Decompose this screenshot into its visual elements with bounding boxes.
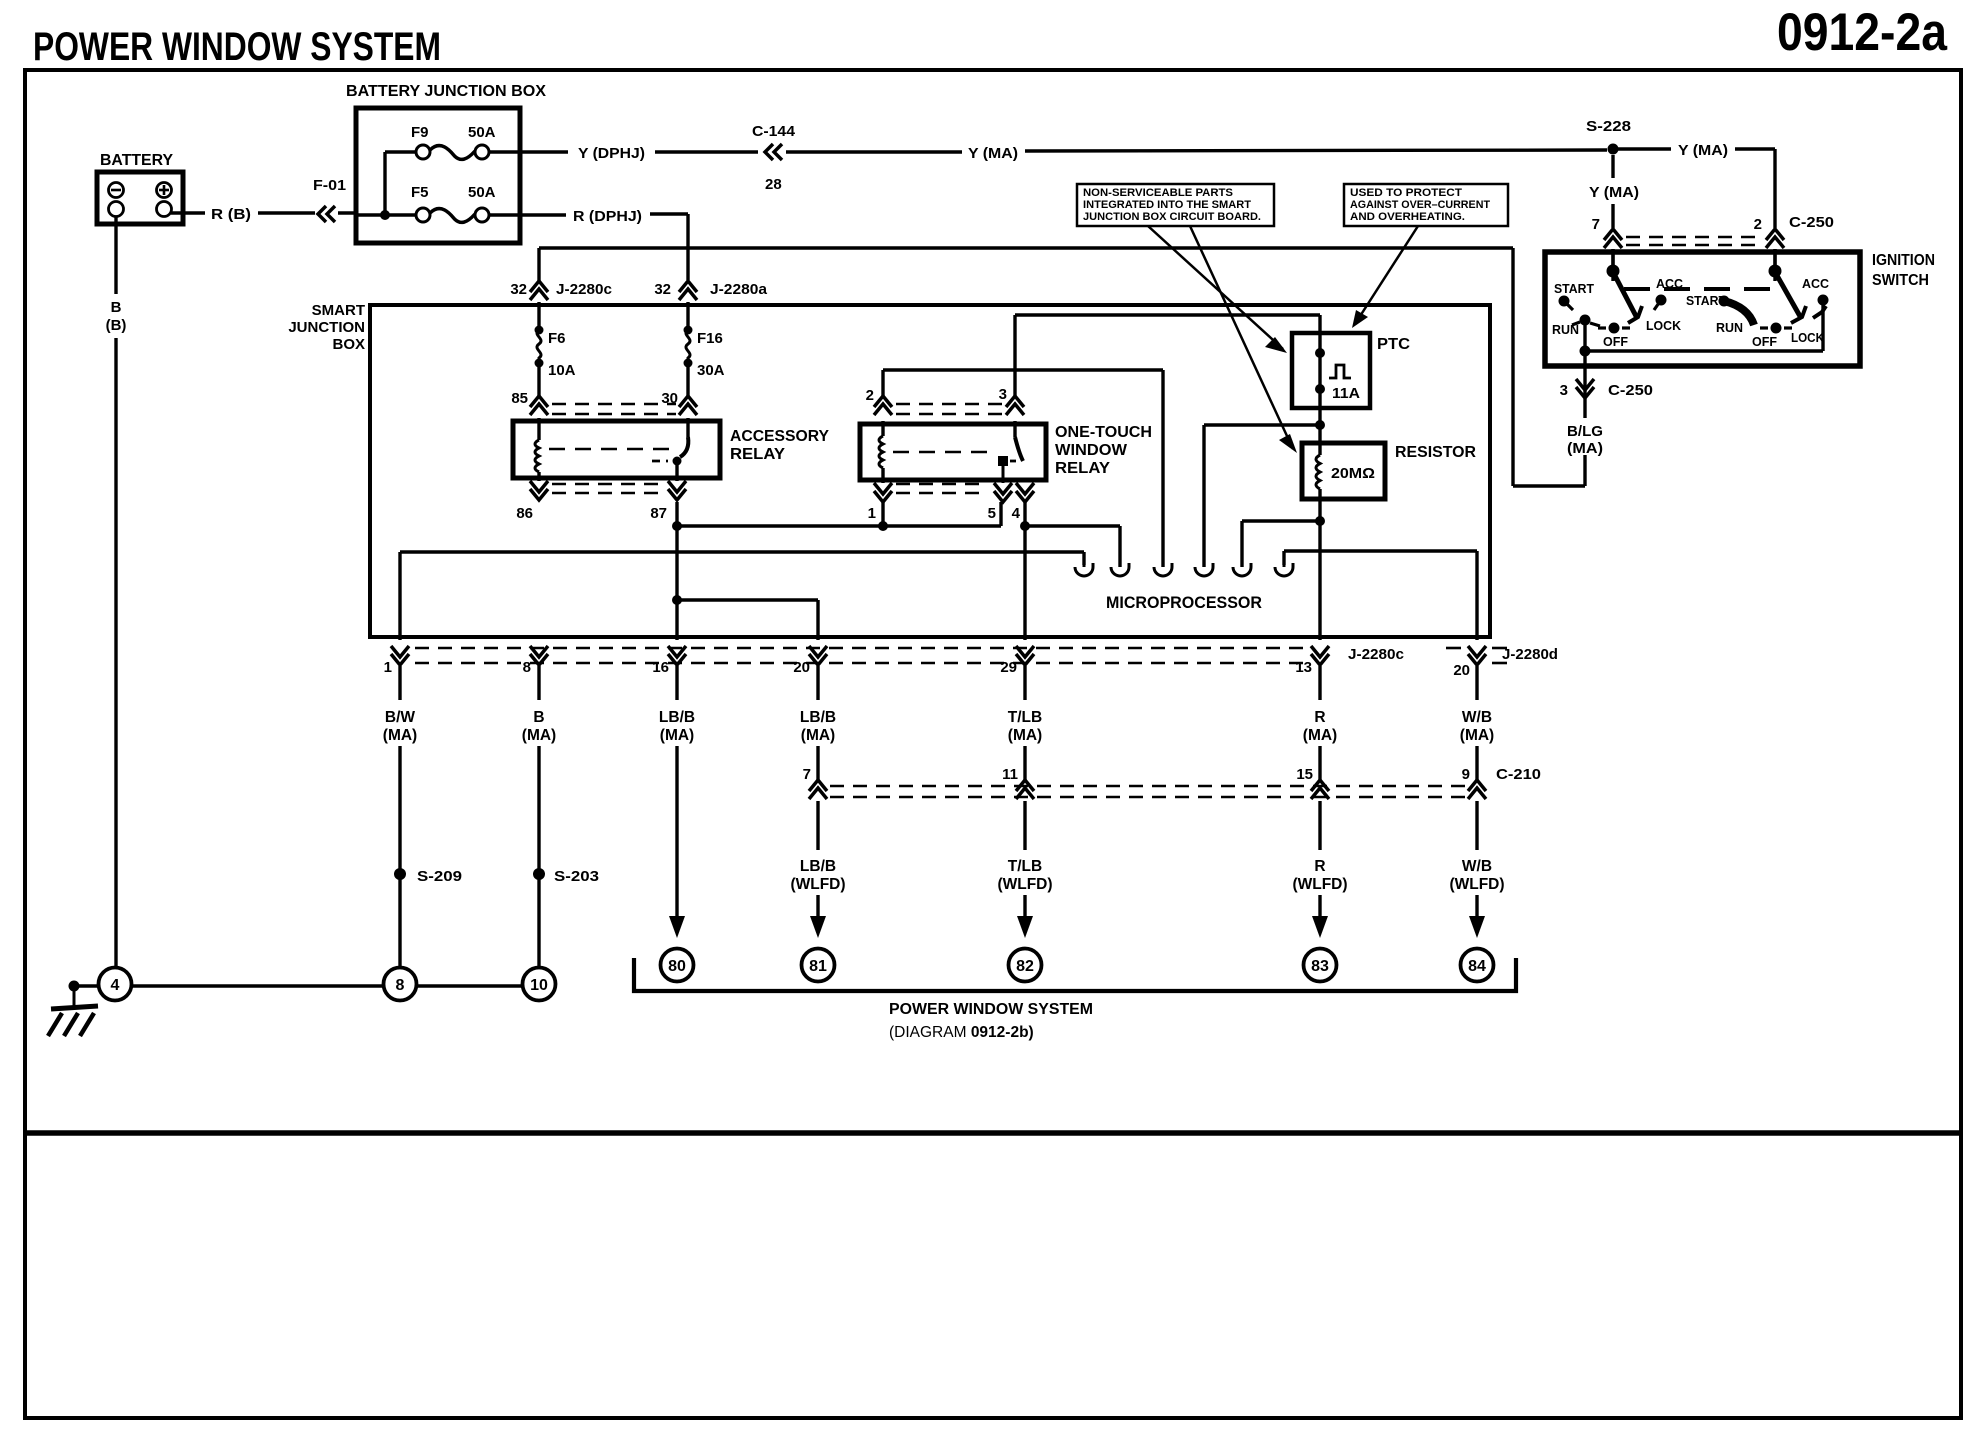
connector 84 (1469, 916, 1485, 938)
wire LB/B (WLFD) (816, 801, 819, 850)
wire B/W (MA) (398, 666, 401, 700)
wire Y (MA) to ignition switch right pin (1618, 147, 1671, 150)
svg-text:S-209: S-209 (417, 868, 462, 885)
svg-text:OFF: OFF (1603, 335, 1628, 349)
wire Y (MA) to S-228 (786, 150, 962, 153)
svg-text:T/LB: T/LB (1008, 858, 1042, 875)
wire T/LB (MA) (1023, 666, 1026, 700)
svg-text:WINDOW: WINDOW (1055, 442, 1128, 459)
wire micro pin to J-2280d pin 20 (1282, 551, 1285, 565)
svg-text:8: 8 (523, 659, 531, 676)
svg-text:INTEGRATED INTO THE SMART: INTEGRATED INTO THE SMART (1083, 199, 1251, 211)
ignition switch left mechanism (1611, 249, 1614, 271)
svg-text:B/W: B/W (385, 709, 416, 726)
connector 83 (1312, 916, 1328, 938)
accessory relay switch (686, 418, 689, 437)
wire R (MA) (1318, 666, 1321, 700)
wire T/LB (WLFD) (1023, 801, 1026, 850)
svg-text:J-2280c: J-2280c (556, 281, 612, 298)
battery junction box (356, 108, 520, 243)
svg-text:20: 20 (1453, 662, 1470, 679)
ignition switch output wire (1821, 303, 1824, 351)
wire B/LG (MA) (1583, 399, 1586, 418)
svg-text:ACC: ACC (1802, 277, 1829, 291)
J-2280c pin 29 (1016, 654, 1034, 665)
svg-text:84: 84 (1468, 958, 1486, 975)
svg-text:85: 85 (511, 390, 528, 407)
divider line (25, 1130, 1961, 1136)
connector 4 (99, 968, 132, 1001)
wire F16 to pin 30 (686, 363, 689, 398)
smart junction box (370, 305, 1490, 637)
svg-text:R (B): R (B) (211, 206, 251, 223)
svg-text:(MA): (MA) (1008, 727, 1042, 744)
ignition switch right mechanism (1773, 249, 1776, 271)
svg-text:50A: 50A (468, 184, 496, 201)
svg-text:(B): (B) (106, 317, 127, 334)
callout arrow to PTC (1355, 226, 1418, 324)
svg-text:2: 2 (866, 387, 874, 404)
svg-text:BATTERY: BATTERY (100, 152, 174, 169)
one-touch window relay (860, 424, 1046, 480)
relay connector pins 86 / 87 (530, 489, 548, 500)
svg-text:30A: 30A (697, 362, 725, 379)
wire PTC to resistor (1318, 408, 1321, 443)
svg-text:SWITCH: SWITCH (1872, 272, 1929, 289)
svg-text:(MA): (MA) (1460, 727, 1494, 744)
C-210 pin 11 (1016, 780, 1034, 791)
wire ignition feed to pin 32 (537, 248, 540, 282)
svg-text:16: 16 (652, 659, 669, 676)
svg-text:C-210: C-210 (1496, 766, 1541, 783)
svg-text:BOX: BOX (332, 336, 365, 353)
J-2280c pin 20 (809, 654, 827, 665)
svg-text:C-250: C-250 (1608, 382, 1653, 399)
svg-text:(MA): (MA) (660, 727, 694, 744)
svg-text:0912-2a: 0912-2a (1777, 3, 1947, 62)
wire pin 2 to microprocessor (881, 370, 884, 398)
wire R (WLFD) (1318, 801, 1321, 850)
svg-text:NON-SERVICEABLE PARTS: NON-SERVICEABLE PARTS (1083, 187, 1233, 199)
svg-text:F9: F9 (411, 124, 429, 141)
svg-text:11: 11 (1002, 766, 1018, 783)
svg-text:W/B: W/B (1462, 709, 1492, 726)
connector C-250 pin 3 (1583, 366, 1586, 399)
svg-text:(MA): (MA) (1567, 440, 1603, 457)
wire F6 to pin 85 (537, 363, 540, 398)
wire F9 feed (385, 150, 416, 153)
svg-text:20: 20 (793, 659, 810, 676)
svg-text:USED TO PROTECT: USED TO PROTECT (1350, 187, 1462, 199)
wire R (B) (171, 211, 205, 214)
svg-text:80: 80 (668, 958, 686, 975)
wire pin 3 to PTC (1013, 315, 1016, 398)
svg-text:86: 86 (516, 505, 533, 522)
svg-text:4: 4 (1012, 505, 1021, 522)
connector J-2280d pin 20 (1446, 647, 1461, 650)
svg-text:83: 83 (1311, 958, 1329, 975)
svg-text:11A: 11A (1332, 385, 1360, 402)
connector C-210 (830, 785, 1465, 788)
svg-text:3: 3 (1560, 382, 1568, 399)
callout: non-serviceable parts note (1077, 184, 1274, 226)
svg-text:8: 8 (396, 977, 405, 994)
svg-text:7: 7 (1592, 216, 1600, 233)
svg-text:F-01: F-01 (313, 177, 346, 194)
svg-text:J-2280c: J-2280c (1348, 646, 1404, 663)
svg-text:PTC: PTC (1377, 336, 1410, 353)
svg-text:32: 32 (654, 281, 671, 298)
wire B/LG return to junction box (1511, 248, 1514, 486)
svg-text:87: 87 (650, 505, 667, 522)
svg-text:(MA): (MA) (801, 727, 835, 744)
wire W/B (MA) (1475, 666, 1478, 700)
svg-text:32: 32 (510, 281, 527, 298)
connector 10 (523, 968, 556, 1001)
wire R (DPHJ) (489, 213, 566, 216)
accessory relay coil (537, 418, 540, 440)
svg-text:Y (MA): Y (MA) (1678, 142, 1728, 159)
wire resistor junction to microprocessor (1242, 519, 1320, 522)
svg-text:1: 1 (868, 505, 876, 522)
bracket power window system (634, 958, 1516, 991)
svg-text:B/LG: B/LG (1567, 423, 1603, 440)
J-2280c pin 8 (530, 654, 548, 665)
svg-text:(WLFD): (WLFD) (1449, 876, 1504, 893)
svg-text:B: B (533, 709, 544, 726)
J-2280c pin 1 (391, 654, 409, 665)
C-210 pin 7 (809, 780, 827, 791)
C-210 pin 15 (1311, 780, 1329, 791)
wire B/W (MA) to S-209 (398, 746, 401, 968)
wire PTC junction to microprocessor (1204, 423, 1320, 426)
svg-text:BATTERY JUNCTION BOX: BATTERY JUNCTION BOX (346, 83, 547, 100)
svg-text:R: R (1314, 858, 1325, 875)
wire branch to pin 20 (672, 595, 682, 605)
callout arrow to PTC wire (1148, 226, 1283, 349)
ground (73, 986, 76, 1007)
svg-text:START: START (1554, 282, 1594, 296)
splice S-209 (394, 868, 406, 880)
svg-text:29: 29 (1000, 659, 1017, 676)
wire B (MA) to S-203 (537, 746, 540, 968)
wire pin32 J-2280a to F16 (686, 302, 689, 330)
wire B (B) battery down (114, 217, 117, 294)
svg-text:SMART: SMART (312, 302, 365, 319)
svg-text:Y (DPHJ): Y (DPHJ) (578, 145, 645, 162)
svg-text:J-2280a: J-2280a (710, 281, 768, 298)
svg-text:(MA): (MA) (522, 727, 556, 744)
svg-text:15: 15 (1296, 766, 1313, 783)
svg-text:F6: F6 (548, 330, 566, 347)
resistor 20M (1302, 443, 1385, 499)
svg-text:50A: 50A (468, 124, 496, 141)
J-2280c pin 16 (668, 654, 686, 665)
splice S-203 (533, 868, 545, 880)
wire ground bus (132, 984, 384, 987)
connector 81 (810, 916, 826, 938)
connector 80 (669, 916, 685, 938)
svg-text:W/B: W/B (1462, 858, 1492, 875)
svg-text:S-228: S-228 (1586, 118, 1631, 135)
svg-text:R: R (1314, 709, 1325, 726)
wire LB/B (MA) (675, 666, 678, 700)
svg-text:2: 2 (1754, 216, 1762, 233)
connector 8 (384, 968, 417, 1001)
svg-text:20MΩ: 20MΩ (1331, 465, 1375, 482)
ground node (69, 981, 80, 992)
wire pin 4 to microprocessor (1023, 502, 1026, 640)
one-touch relay switch (1013, 421, 1016, 437)
svg-text:4: 4 (111, 977, 120, 994)
svg-text:F5: F5 (411, 184, 429, 201)
svg-text:B: B (111, 299, 122, 316)
callout arrow to resistor (1190, 226, 1293, 449)
svg-text:AND OVERHEATING.: AND OVERHEATING. (1350, 211, 1465, 223)
svg-text:7: 7 (803, 766, 811, 783)
wire LB/B (MA) to connector 80 (675, 746, 678, 916)
callout: used to protect note (1344, 184, 1508, 226)
svg-text:Y (MA): Y (MA) (1589, 184, 1639, 201)
svg-text:(DIAGRAM 0912-2b): (DIAGRAM 0912-2b) (889, 1024, 1034, 1041)
connector J-2280c bottom row (415, 647, 1305, 650)
wire W/B (WLFD) (1475, 801, 1478, 850)
svg-text:RELAY: RELAY (730, 446, 785, 463)
svg-text:ACCESSORY: ACCESSORY (730, 428, 829, 445)
svg-text:9: 9 (1462, 766, 1470, 783)
svg-text:JUNCTION BOX CIRCUIT BOARD.: JUNCTION BOX CIRCUIT BOARD. (1083, 211, 1261, 223)
ACC gang dashed link (1624, 287, 1779, 291)
svg-text:ONE-TOUCH: ONE-TOUCH (1055, 424, 1152, 441)
wire B (MA) (537, 666, 540, 700)
relay connector pins 1 / 5 / 4 (874, 491, 892, 502)
wire resistor down to pin 13 (1318, 499, 1321, 640)
wire pin 87 to pins 1,5 (675, 502, 678, 640)
svg-text:LB/B: LB/B (800, 709, 836, 726)
svg-text:C-250: C-250 (1789, 214, 1834, 231)
svg-text:JUNCTION: JUNCTION (288, 319, 365, 336)
svg-text:Y (MA): Y (MA) (968, 145, 1018, 162)
one-touch relay coil (881, 421, 884, 436)
svg-text:10: 10 (530, 977, 548, 994)
svg-text:R (DPHJ): R (DPHJ) (573, 208, 642, 225)
battery (97, 172, 183, 224)
connector 82 (1017, 916, 1033, 938)
ignition switch (1545, 252, 1860, 366)
svg-text:(WLFD): (WLFD) (997, 876, 1052, 893)
svg-text:POWER WINDOW SYSTEM: POWER WINDOW SYSTEM (889, 1001, 1093, 1018)
svg-text:1: 1 (384, 659, 392, 676)
svg-text:LOCK: LOCK (1646, 319, 1681, 333)
wire Y (DPHJ) (489, 150, 568, 153)
wire LB/B (MA) (816, 666, 819, 700)
svg-text:3: 3 (999, 386, 1007, 403)
connector C-250 pins 7 / 2 (1611, 155, 1614, 178)
svg-text:10A: 10A (548, 362, 576, 379)
svg-text:RELAY: RELAY (1055, 460, 1110, 477)
svg-text:LB/B: LB/B (659, 709, 695, 726)
accessory relay (513, 421, 720, 478)
svg-text:RESISTOR: RESISTOR (1395, 444, 1476, 461)
svg-text:MICROPROCESSOR: MICROPROCESSOR (1106, 594, 1262, 612)
svg-text:POWER WINDOW SYSTEM: POWER WINDOW SYSTEM (33, 25, 441, 69)
svg-text:J-2280d: J-2280d (1502, 646, 1558, 663)
svg-text:F16: F16 (697, 330, 723, 347)
svg-text:T/LB: T/LB (1008, 709, 1042, 726)
wire micro pin to bottom pin 1 (1082, 552, 1085, 565)
svg-text:AGAINST OVER–CURRENT: AGAINST OVER–CURRENT (1350, 199, 1490, 211)
wire pin32 to F6 (537, 302, 540, 330)
svg-text:(MA): (MA) (1303, 727, 1337, 744)
svg-text:(WLFD): (WLFD) (790, 876, 845, 893)
svg-text:(MA): (MA) (383, 727, 417, 744)
svg-text:81: 81 (809, 958, 827, 975)
C-210 pin 9 (1468, 780, 1486, 791)
PTC (1292, 333, 1370, 408)
svg-text:LB/B: LB/B (800, 858, 836, 875)
svg-text:82: 82 (1016, 958, 1034, 975)
svg-text:28: 28 (765, 176, 782, 193)
svg-text:S-203: S-203 (554, 868, 599, 885)
J-2280c pin 13 (1311, 654, 1329, 665)
svg-text:OFF: OFF (1752, 335, 1777, 349)
svg-text:13: 13 (1295, 659, 1312, 676)
svg-text:RUN: RUN (1716, 321, 1743, 335)
svg-text:(WLFD): (WLFD) (1292, 876, 1347, 893)
svg-text:C-144: C-144 (752, 123, 796, 140)
svg-text:IGNITION: IGNITION (1872, 252, 1935, 269)
svg-text:5: 5 (988, 505, 996, 522)
svg-text:LOCK: LOCK (1791, 331, 1824, 345)
